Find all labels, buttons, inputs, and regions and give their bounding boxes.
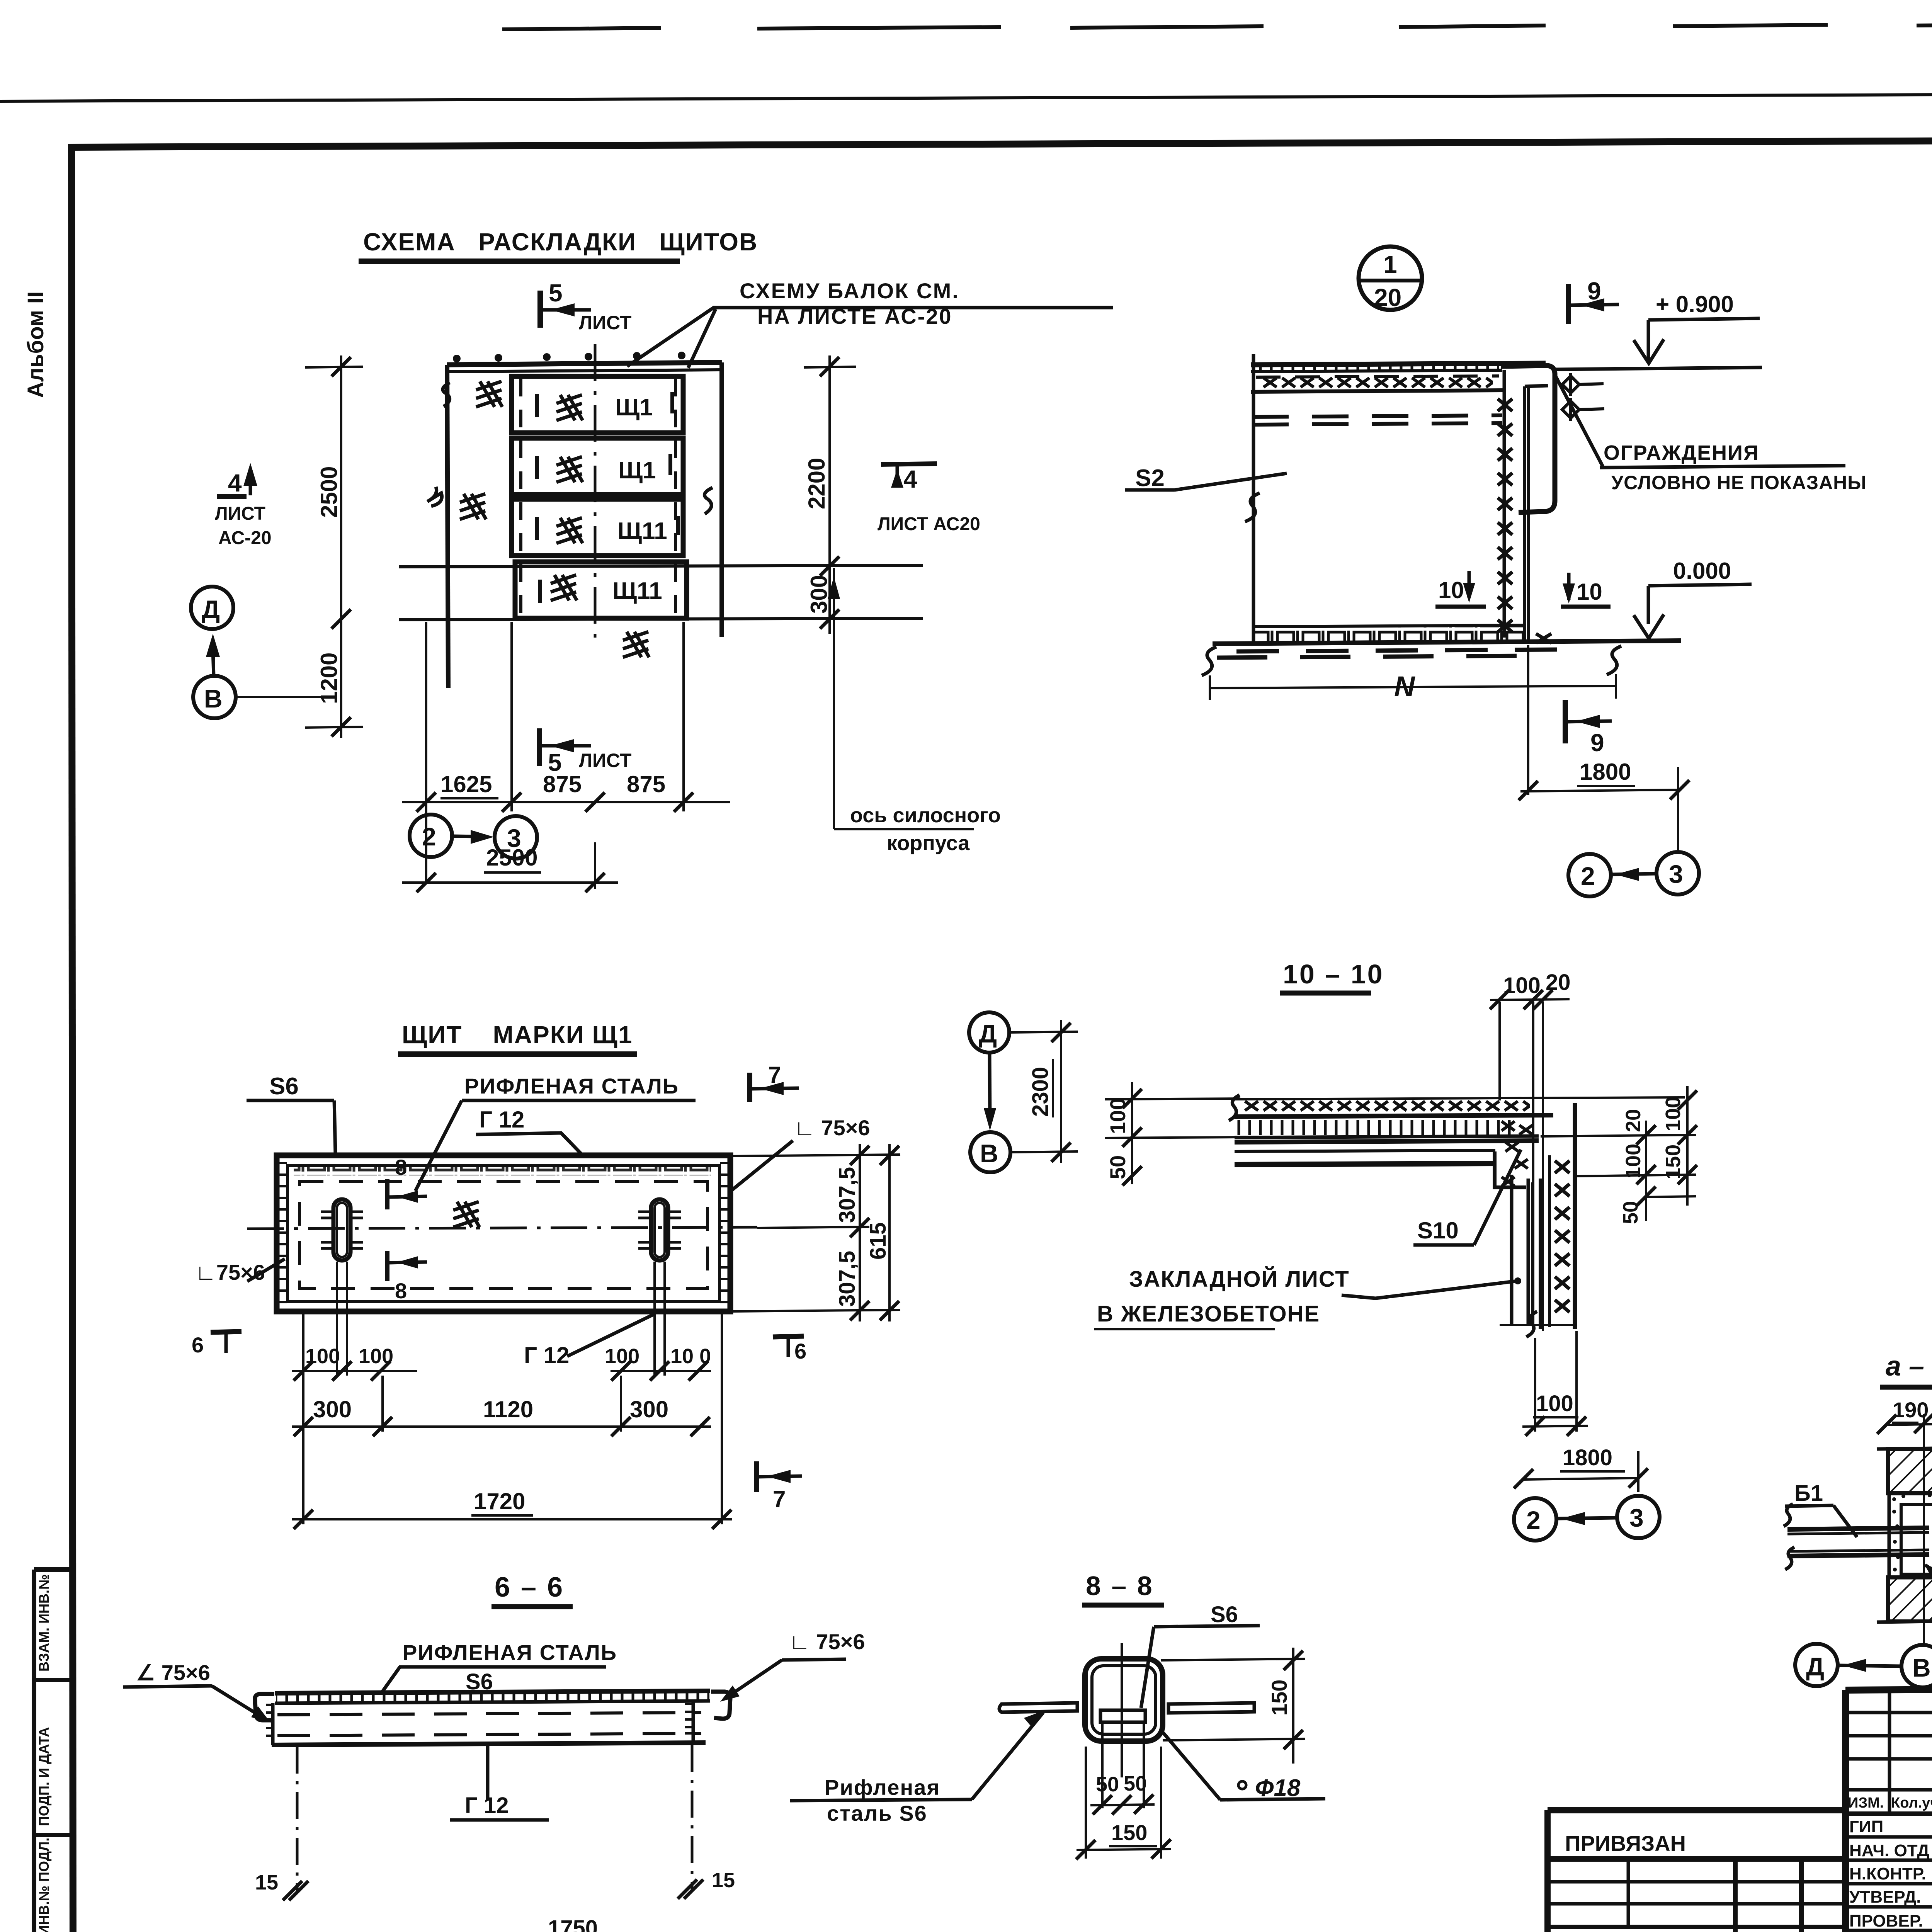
wall left face with welds bbox=[1503, 370, 1506, 638]
grid bubbles D and V left bbox=[191, 587, 233, 629]
section mark 5 top bbox=[540, 279, 631, 333]
panel marks bbox=[612, 394, 667, 604]
revision grid rows bbox=[1845, 1713, 1932, 1930]
level line +0.900 bbox=[1554, 367, 1762, 369]
dims 100 100 row bbox=[292, 1370, 417, 1372]
svg-text:6: 6 bbox=[794, 1339, 806, 1363]
svg-text:9: 9 bbox=[1587, 277, 1601, 305]
svg-text:S6: S6 bbox=[1211, 1602, 1238, 1627]
revision header texts bbox=[1848, 1793, 1932, 1812]
step notch under slab bbox=[1495, 1151, 1526, 1187]
svg-text:15: 15 bbox=[712, 1869, 735, 1892]
beam B1 bbox=[1787, 1528, 1929, 1529]
svg-text:∟ 75×6: ∟ 75×6 bbox=[794, 1116, 870, 1140]
svg-text:4: 4 bbox=[228, 469, 242, 497]
right dim 615 bbox=[888, 1144, 891, 1321]
checkered top plate bbox=[275, 1691, 710, 1693]
svg-text:150: 150 bbox=[1111, 1820, 1147, 1845]
right dims 307,5 / 307,5 bbox=[730, 1155, 900, 1156]
short tick marks inside panels bbox=[537, 392, 678, 603]
svg-text:В: В bbox=[980, 1139, 998, 1168]
section mark 7 top bbox=[747, 1073, 752, 1102]
svg-text:2300: 2300 bbox=[1028, 1067, 1053, 1117]
left boundary of slab bbox=[1252, 354, 1255, 643]
svg-text:ЛИСТ АС20: ЛИСТ АС20 bbox=[878, 514, 980, 534]
svg-text:РИФЛЕНАЯ СТАЛЬ: РИФЛЕНАЯ СТАЛЬ bbox=[464, 1074, 679, 1098]
svg-text:Г 12: Г 12 bbox=[524, 1342, 569, 1368]
panel row 4 bbox=[515, 562, 687, 618]
column centre line bbox=[1923, 1414, 1925, 1645]
node bubble 1/20 bbox=[1359, 247, 1422, 310]
panel row 3 bbox=[512, 499, 683, 556]
svg-text:В: В bbox=[204, 684, 223, 713]
svg-text:15: 15 bbox=[255, 1871, 278, 1894]
weld crosshatch symbols bbox=[476, 381, 502, 407]
svg-text:8: 8 bbox=[395, 1155, 407, 1179]
bottom edge with break bbox=[1500, 1324, 1574, 1326]
right wing plate bbox=[1168, 1703, 1254, 1713]
column hatched walls bbox=[1888, 1449, 1932, 1493]
svg-text:300: 300 bbox=[630, 1396, 668, 1422]
channel 12 label bbox=[486, 1744, 490, 1801]
ground sleeper band bbox=[1253, 625, 1524, 627]
svg-text:100: 100 bbox=[359, 1345, 393, 1368]
svg-text:РИФЛЕНАЯ СТАЛЬ: РИФЛЕНАЯ СТАЛЬ bbox=[403, 1640, 617, 1665]
svg-text:УСЛОВНО НЕ ПОКАЗАНЫ: УСЛОВНО НЕ ПОКАЗАНЫ bbox=[1611, 472, 1867, 493]
grid bubble V bbox=[970, 1132, 1010, 1172]
svg-text:Н.КОНТР.: Н.КОНТР. bbox=[1849, 1864, 1926, 1883]
floor slab top chord bbox=[1251, 363, 1546, 365]
svg-text:Ф18: Ф18 bbox=[1255, 1775, 1301, 1801]
svg-text:7: 7 bbox=[773, 1486, 786, 1512]
svg-text:Щ11: Щ11 bbox=[617, 518, 667, 544]
svg-text:сталь S6: сталь S6 bbox=[827, 1801, 927, 1825]
signature rows texts bbox=[1849, 1817, 1932, 1932]
svg-text:Г 12: Г 12 bbox=[465, 1793, 509, 1818]
svg-text:ВЗАМ. ИНВ.№: ВЗАМ. ИНВ.№ bbox=[36, 1574, 52, 1672]
svg-text:АС-20: АС-20 bbox=[218, 528, 272, 548]
section mark 8 lower bbox=[385, 1251, 389, 1281]
svg-text:ЗАКЛАДНОЙ ЛИСТ: ЗАКЛАДНОЙ ЛИСТ bbox=[1129, 1267, 1350, 1292]
svg-text:1750: 1750 bbox=[548, 1916, 598, 1932]
section mark 7 bottom bbox=[754, 1461, 759, 1492]
svg-text:1: 1 bbox=[1383, 250, 1397, 278]
svg-text:6 – 6: 6 – 6 bbox=[495, 1572, 564, 1603]
svg-text:1800: 1800 bbox=[1563, 1445, 1612, 1470]
cast wall weld column bbox=[1548, 1155, 1551, 1327]
svg-text:∟ 75×6: ∟ 75×6 bbox=[789, 1629, 865, 1654]
lifting slot hole right bbox=[651, 1199, 668, 1260]
svg-text:100: 100 bbox=[605, 1345, 639, 1368]
svg-text:150: 150 bbox=[1662, 1145, 1685, 1179]
underground dashed lines bbox=[1236, 650, 1557, 651]
svg-text:20: 20 bbox=[1374, 284, 1401, 311]
section mark 9 top bbox=[1566, 284, 1571, 324]
svg-text:ГИП: ГИП bbox=[1849, 1817, 1883, 1836]
hanger centre lines bbox=[296, 1747, 299, 1893]
top edge dashed segments bbox=[502, 22, 1932, 29]
grid bubbles 2 and 3 bottom bbox=[410, 815, 452, 857]
joint weld x marks bbox=[1502, 1121, 1532, 1186]
frame top heavy line bbox=[68, 138, 1932, 147]
dim extension verticals from holes bbox=[303, 1262, 722, 1524]
right angle hook bbox=[711, 1692, 730, 1719]
dashed inner edges of panels bbox=[521, 379, 675, 618]
svg-text:ОГРАЖДЕНИЯ: ОГРАЖДЕНИЯ bbox=[1604, 441, 1759, 464]
dim 150 bottom bbox=[1085, 1747, 1087, 1859]
svg-text:50: 50 bbox=[1096, 1773, 1119, 1796]
svg-text:50: 50 bbox=[1619, 1201, 1642, 1224]
svg-text:1800: 1800 bbox=[1580, 759, 1631, 785]
ground line bbox=[1213, 641, 1681, 644]
svg-text:5: 5 bbox=[548, 748, 562, 776]
right boundary bbox=[719, 362, 724, 637]
left wing plate bbox=[999, 1703, 1077, 1712]
column bottom edge bbox=[1877, 1621, 1932, 1622]
svg-text:Д: Д bbox=[979, 1019, 997, 1048]
inner plate S6 bbox=[1100, 1710, 1145, 1722]
svg-text:875: 875 bbox=[627, 771, 665, 797]
svg-text:100: 100 bbox=[1536, 1391, 1573, 1416]
svg-text:0.000: 0.000 bbox=[1673, 558, 1731, 584]
svg-text:ИНВ. №: ИНВ. № bbox=[1557, 1930, 1634, 1932]
column top edge bbox=[1877, 1448, 1932, 1449]
svg-text:6: 6 bbox=[192, 1333, 204, 1357]
bolt dots on rail bbox=[453, 352, 685, 362]
right dims chains bbox=[1541, 1135, 1696, 1136]
svg-text:10 0: 10 0 bbox=[670, 1345, 711, 1368]
svg-text:Альбом II: Альбом II bbox=[23, 291, 48, 398]
top edge tie hatch bbox=[294, 1167, 711, 1175]
svg-text:9: 9 bbox=[1590, 729, 1604, 757]
svg-text:Щ11: Щ11 bbox=[612, 578, 662, 604]
svg-text:ось силосного: ось силосного bbox=[850, 804, 1001, 827]
svg-text:ПРОВЕР.: ПРОВЕР. bbox=[1849, 1912, 1923, 1930]
svg-text:20: 20 bbox=[1622, 1109, 1645, 1132]
bolt symbols bbox=[1562, 373, 1604, 421]
svg-text:2200: 2200 bbox=[804, 458, 830, 509]
section marks 10 bbox=[1435, 571, 1486, 607]
svg-text:1720: 1720 bbox=[474, 1488, 525, 1514]
svg-text:100: 100 bbox=[1105, 1098, 1130, 1134]
privyazan tail block bbox=[1548, 1810, 1845, 1932]
grout dots bbox=[1892, 1493, 1932, 1578]
svg-text:2: 2 bbox=[1581, 862, 1595, 890]
connecting line with arrow bbox=[990, 1053, 990, 1122]
svg-text:8: 8 bbox=[395, 1279, 407, 1303]
svg-text:ИЗМ.: ИЗМ. bbox=[1848, 1795, 1884, 1811]
svg-text:100: 100 bbox=[1503, 973, 1541, 998]
svg-text:3: 3 bbox=[1669, 860, 1683, 888]
panel inner dashed line bbox=[299, 1182, 707, 1288]
dim 2300 vertical bbox=[1009, 1032, 1078, 1032]
svg-text:S2: S2 bbox=[1135, 465, 1165, 492]
svg-text:ПРИВЯЗАН: ПРИВЯЗАН bbox=[1565, 1831, 1686, 1855]
grid bubbles D V bbox=[1795, 1644, 1838, 1686]
svg-text:Рифленая: Рифленая bbox=[825, 1775, 940, 1799]
horizontal axis line 300 offset bbox=[399, 565, 923, 567]
svg-text:ЛИСТ: ЛИСТ bbox=[215, 503, 265, 524]
svg-text:ЛИСТ: ЛИСТ bbox=[579, 312, 631, 333]
svg-text:3: 3 bbox=[507, 824, 521, 852]
svg-text:100: 100 bbox=[305, 1345, 340, 1368]
section mark 9 bottom bbox=[1563, 700, 1568, 743]
svg-text:615: 615 bbox=[866, 1222, 891, 1260]
svg-text:ИНВ.№ ПОДЛ.: ИНВ.№ ПОДЛ. bbox=[36, 1838, 52, 1932]
sheet ref mark 4 top-left bbox=[215, 463, 272, 548]
weld x row under slab bbox=[1261, 377, 1493, 391]
middle dashed pair bbox=[1252, 415, 1502, 417]
dims 50 50 bbox=[1101, 1724, 1104, 1808]
dim 150 right bbox=[1161, 1659, 1305, 1660]
break squiggle on left boundary bbox=[1245, 493, 1260, 522]
svg-text:2: 2 bbox=[422, 822, 436, 851]
svg-text:3: 3 bbox=[1629, 1503, 1644, 1532]
svg-text:300: 300 bbox=[313, 1396, 352, 1422]
phi18 label bbox=[1163, 1733, 1220, 1800]
svg-text:2: 2 bbox=[1526, 1506, 1541, 1534]
weld ticks around holes bbox=[321, 1212, 681, 1248]
svg-text:4: 4 bbox=[903, 465, 917, 493]
svg-text:307,5: 307,5 bbox=[835, 1167, 860, 1223]
square tube outer bbox=[1085, 1659, 1163, 1741]
svg-text:Г 12: Г 12 bbox=[479, 1107, 524, 1133]
svg-text:∟75×6: ∟75×6 bbox=[195, 1260, 265, 1284]
left boundary bbox=[447, 365, 448, 688]
svg-text:8 – 8: 8 – 8 bbox=[1086, 1571, 1154, 1601]
weld x at wall base bbox=[1536, 634, 1551, 643]
sidebar stamp boxes bbox=[34, 1570, 72, 1932]
left dim chain bbox=[340, 355, 342, 738]
svg-text:307,5: 307,5 bbox=[835, 1251, 860, 1307]
channel body bbox=[271, 1703, 275, 1745]
grid bubble D bbox=[969, 1012, 1009, 1053]
svg-text:Б1: Б1 bbox=[1794, 1481, 1823, 1506]
svg-text:N: N bbox=[1394, 670, 1415, 702]
svg-text:Д: Д bbox=[1806, 1652, 1824, 1681]
center vertical axis bbox=[594, 344, 597, 638]
svg-text:СХЕМУ БАЛОК СМ.: СХЕМУ БАЛОК СМ. bbox=[740, 279, 959, 303]
svg-text:Д: Д bbox=[202, 595, 220, 624]
svg-text:100: 100 bbox=[1662, 1097, 1685, 1131]
bottom dim 2500 bbox=[402, 881, 618, 884]
svg-text:10: 10 bbox=[1438, 577, 1464, 603]
svg-text:СХЕМА РАСКЛАДКИ ЩИТОВ: СХЕМА РАСКЛАДКИ ЩИТОВ bbox=[363, 228, 758, 256]
grid bubbles 2 and 3 bbox=[1568, 854, 1611, 896]
svg-text:ПОДП. И ДАТА: ПОДП. И ДАТА bbox=[36, 1727, 52, 1826]
square tube inner bbox=[1092, 1666, 1156, 1734]
svg-text:S10: S10 bbox=[1417, 1218, 1459, 1243]
section mark 5 bottom bbox=[539, 728, 631, 776]
svg-text:7: 7 bbox=[768, 1062, 781, 1088]
svg-text:Щ1: Щ1 bbox=[615, 394, 653, 421]
svg-text:50: 50 bbox=[1124, 1772, 1147, 1795]
svg-text:∠ 75×6: ∠ 75×6 bbox=[136, 1660, 210, 1685]
panel row 2 bbox=[512, 438, 683, 495]
revision grid columns bbox=[1889, 1689, 1932, 1932]
svg-text:50: 50 bbox=[1105, 1155, 1130, 1179]
grout pocket with angle bbox=[1889, 1493, 1932, 1578]
svg-text:S6: S6 bbox=[269, 1073, 299, 1100]
panel row 1 bbox=[512, 376, 683, 433]
dim 1720 row bbox=[292, 1518, 732, 1520]
bottom slab edge line with ticks bbox=[399, 618, 923, 620]
panel outer rect bbox=[277, 1155, 730, 1311]
svg-text:2500: 2500 bbox=[316, 466, 342, 518]
svg-text:150: 150 bbox=[1267, 1680, 1291, 1716]
crosshatch symbol center bbox=[453, 1202, 480, 1227]
svg-text:10: 10 bbox=[1577, 579, 1602, 605]
left comb ticks on angle bbox=[266, 1704, 692, 1736]
svg-text:300: 300 bbox=[806, 575, 832, 614]
lower wall verticals bbox=[1510, 1175, 1514, 1325]
grid bubbles 2 and 3 bbox=[1514, 1498, 1556, 1541]
svg-text:ЛИСТ: ЛИСТ bbox=[579, 750, 631, 771]
slab left break bbox=[1229, 1095, 1240, 1121]
svg-text:10 – 10: 10 – 10 bbox=[1283, 959, 1384, 989]
sheet outer top line bbox=[0, 92, 1932, 101]
N dim line bbox=[1210, 686, 1616, 688]
leader lines to note bbox=[627, 308, 1113, 366]
left angle hook bbox=[255, 1694, 274, 1720]
title block outer heavy border bbox=[1548, 1685, 1932, 1932]
center axis horizontal bbox=[247, 1227, 757, 1229]
svg-text:ЩИТ МАРКИ Щ1: ЩИТ МАРКИ Щ1 bbox=[402, 1021, 633, 1049]
svg-text:+ 0.900: + 0.900 bbox=[1656, 291, 1734, 317]
wall right face lines bbox=[1523, 386, 1526, 639]
svg-text:a – a: a – a bbox=[1886, 1351, 1932, 1382]
svg-text:1625: 1625 bbox=[440, 771, 492, 797]
panel inner frame line bbox=[287, 1165, 719, 1301]
svg-text:5: 5 bbox=[549, 279, 563, 307]
dims 100 50 left bbox=[1131, 1082, 1133, 1184]
section mark 6 right bbox=[773, 1336, 804, 1337]
bottom dim row 1625 875 875 bbox=[402, 801, 730, 803]
svg-text:УТВЕРД.: УТВЕРД. bbox=[1849, 1888, 1921, 1906]
top rail double line bbox=[447, 362, 722, 365]
lifting slot hole left bbox=[333, 1199, 350, 1260]
dims 300 1120 300 row bbox=[292, 1425, 711, 1428]
break squiggles bbox=[443, 383, 450, 406]
svg-text:корпуса: корпуса bbox=[887, 832, 970, 855]
centre line vertical bbox=[1121, 1643, 1123, 1777]
rail channel profile bbox=[1501, 366, 1555, 512]
floor slab layers bbox=[1235, 1097, 1685, 1099]
right dim chain bbox=[828, 355, 831, 634]
section mark 8 upper bbox=[385, 1179, 389, 1209]
svg-text:В ЖЕЛЕЗОБЕТОНЕ: В ЖЕЛЕЗОБЕТОНЕ bbox=[1097, 1301, 1320, 1327]
svg-text:Щ1: Щ1 bbox=[618, 457, 656, 484]
sheet ref mark 4 right bbox=[878, 464, 980, 534]
svg-text:Кол.уч: Кол.уч bbox=[1891, 1795, 1932, 1811]
svg-text:НАЧ. ОТД: НАЧ. ОТД bbox=[1849, 1841, 1929, 1860]
svg-text:В: В bbox=[1912, 1653, 1931, 1682]
svg-text:100: 100 bbox=[1622, 1144, 1645, 1179]
frame left heavy line bbox=[71, 145, 73, 1932]
svg-text:1120: 1120 bbox=[483, 1396, 533, 1422]
